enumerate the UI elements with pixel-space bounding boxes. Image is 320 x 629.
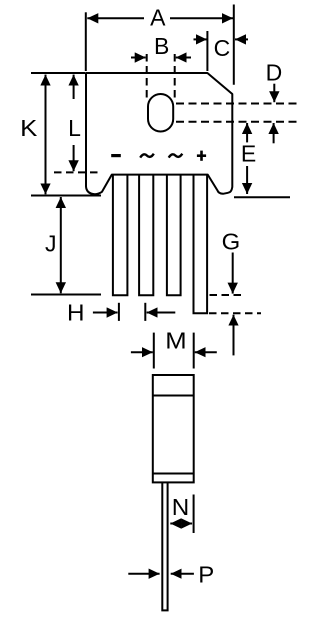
- svg-text:B: B: [154, 33, 169, 59]
- terminal label plus: [197, 151, 206, 161]
- body side view: [153, 375, 194, 482]
- dimension G up arrow (long shaft): [233, 315, 235, 356]
- svg-text:L: L: [68, 115, 81, 141]
- svg-text:M: M: [165, 328, 186, 354]
- seating plane extension line left (K/J): [31, 195, 101, 197]
- dimension K label: [20, 115, 38, 141]
- svg-text:J: J: [45, 230, 57, 256]
- dimension G label: [222, 228, 241, 254]
- lead 3: [167, 175, 181, 296]
- dimension J label: [45, 230, 57, 256]
- extension line left (A): [85, 12, 87, 71]
- dimension L up arrow: [73, 75, 75, 99]
- dimension J arrow: [60, 197, 62, 293]
- side view top band line: [153, 395, 194, 397]
- svg-text:G: G: [222, 228, 241, 254]
- dashed line at long lead tip: [209, 312, 261, 314]
- dashed datum line left (body bottom): [54, 171, 99, 173]
- dimension M label: [165, 328, 186, 354]
- dimension H arrows and ticks: [93, 303, 175, 321]
- dimension D up arrow: [273, 123, 275, 143]
- dimension H label: [67, 299, 85, 325]
- terminal label tilde 1: [140, 154, 154, 158]
- dimension K arrow: [45, 75, 47, 195]
- lead 4 (long plus lead): [194, 175, 208, 314]
- dimension M arrows: [131, 351, 217, 353]
- lead 1: [113, 175, 128, 296]
- svg-text:A: A: [150, 4, 166, 30]
- extension line C left: [206, 31, 208, 71]
- dimension E up arrow: [246, 123, 248, 142]
- dashed extension line B right: [174, 54, 176, 101]
- lead side view: [162, 482, 167, 610]
- dimension L down arrow: [73, 145, 75, 171]
- lead tip extension line left (J/H): [31, 294, 101, 296]
- dimension N double arrow: [170, 523, 192, 525]
- svg-text:N: N: [172, 494, 190, 520]
- svg-text:H: H: [67, 299, 85, 325]
- svg-text:C: C: [214, 35, 231, 61]
- dimension C arrows: [194, 38, 249, 40]
- dimension E label: [241, 140, 256, 166]
- svg-text:K: K: [20, 115, 38, 141]
- top extension line left (K): [31, 72, 85, 74]
- dimension B arrows: [131, 57, 191, 59]
- lead 2: [139, 175, 153, 296]
- side view bottom band line: [153, 473, 194, 475]
- svg-text:D: D: [266, 59, 283, 85]
- body outline (top view): [86, 73, 232, 194]
- dimension N extension tick: [193, 495, 195, 534]
- dashed datum line lower (hole tangent): [176, 121, 300, 123]
- mounting hole (obround): [148, 94, 173, 132]
- dimension G down arrow: [232, 253, 234, 294]
- terminal label minus: [111, 154, 121, 157]
- dimension D label: [266, 59, 283, 85]
- dimension B label: [154, 33, 169, 59]
- bottom plane extension line right: [234, 196, 290, 198]
- dimension D down arrow: [273, 84, 275, 103]
- dashed datum line upper (hole tangent): [176, 103, 300, 105]
- dimension E down arrow: [246, 166, 248, 194]
- dimension P label: [198, 561, 214, 587]
- svg-text:P: P: [198, 561, 214, 587]
- dimension A line: [87, 17, 233, 19]
- dimension P arrows: [128, 573, 194, 575]
- svg-text:E: E: [241, 140, 256, 166]
- dimension A label: [150, 4, 166, 30]
- terminal label tilde 2: [169, 154, 183, 158]
- dimension N label: [172, 494, 190, 520]
- dashed line at short lead tips: [210, 294, 245, 296]
- dashed extension line B left: [146, 54, 148, 98]
- extension line right (A and C): [233, 5, 235, 85]
- dimension C label: [214, 35, 231, 61]
- dimension M extension ticks: [154, 333, 194, 369]
- dimension L label: [68, 115, 81, 141]
